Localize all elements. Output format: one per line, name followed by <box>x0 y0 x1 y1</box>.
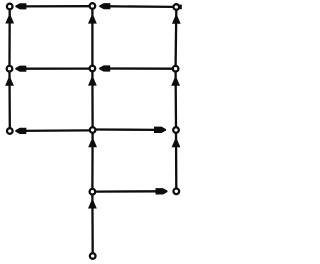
wire R1 to M1 <box>100 5 174 8</box>
node M1 <box>90 3 96 9</box>
arrowhead M1 to L1 <box>15 3 26 9</box>
wire R2 to R1 <box>174 10 177 66</box>
arrowhead L3 to L2 <box>5 76 14 86</box>
arrowhead M3 to L3 <box>15 128 26 134</box>
node R1 <box>174 4 180 10</box>
arrowhead M2 to L2 <box>15 66 26 72</box>
arrowhead L2 to L1 <box>5 14 14 24</box>
arrowhead M5 to M4 <box>88 199 97 209</box>
ink blob artifact right of node R1 <box>179 5 182 10</box>
node L2 <box>7 66 13 72</box>
arrowhead M4 to R4 <box>156 188 168 194</box>
arrowhead R1 to M1 <box>99 3 110 9</box>
wire R4 to R3 <box>175 133 178 188</box>
arrowhead R2 to M2 <box>99 65 110 71</box>
wire M2 to M1 <box>91 9 93 65</box>
arrowhead M4 to M3 <box>88 137 97 147</box>
wire M1 to L1 <box>17 5 90 8</box>
wire R2 to M2 <box>100 67 173 69</box>
arrowhead R4 to R3 <box>172 137 181 147</box>
wire M4 to R4 <box>95 190 160 193</box>
arrowhead M3 to M2 <box>88 76 97 86</box>
node M5 <box>90 253 96 259</box>
wire M5 to M4 <box>91 195 94 254</box>
node R4 <box>174 189 180 195</box>
arrowhead R3 to R2 <box>171 76 180 86</box>
arrowhead R2 to R1 <box>172 14 181 24</box>
node M3 <box>90 127 96 133</box>
arrowhead M2 to M1 <box>88 14 97 24</box>
wire L2 to L1 <box>8 10 10 66</box>
node L1 <box>7 4 13 10</box>
wire R3 to R2 <box>174 72 177 127</box>
node R2 <box>173 66 179 72</box>
node M2 <box>90 66 96 72</box>
wire M3 to R3 <box>96 128 161 131</box>
node M4 <box>90 189 96 195</box>
wire M3 to M2 <box>91 72 93 128</box>
node R3 <box>173 127 179 133</box>
node L3 <box>7 128 13 134</box>
wire M4 to M3 <box>91 133 93 189</box>
arrowhead M3 to R3 <box>154 127 166 133</box>
wire M2 to L2 <box>17 67 90 69</box>
wire L3 to L2 <box>8 72 11 128</box>
wire M3 to L3 <box>17 129 90 132</box>
